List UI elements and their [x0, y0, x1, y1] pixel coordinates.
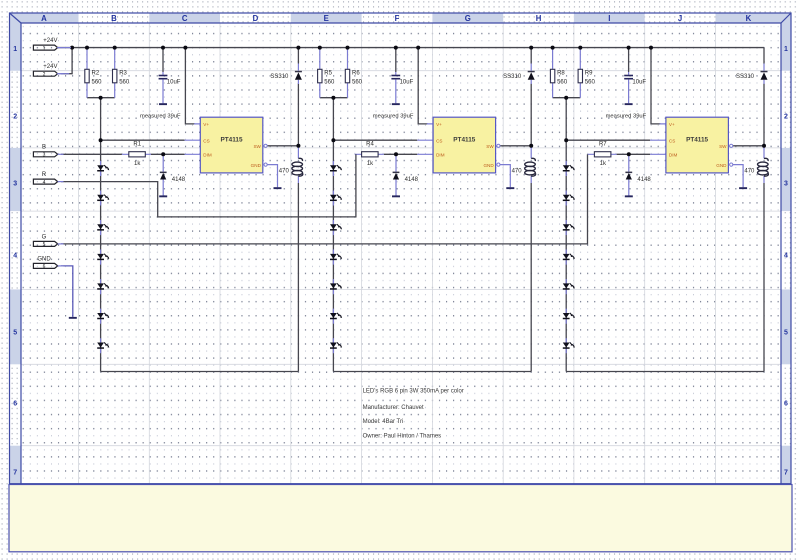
svg-text:6: 6: [13, 401, 17, 408]
svg-text:G: G: [42, 234, 47, 240]
svg-text:2: 2: [13, 114, 17, 121]
svg-text:Manufacturer: Chauvet: Manufacturer: Chauvet: [363, 405, 424, 411]
svg-text:2: 2: [43, 72, 46, 78]
svg-text:3: 3: [784, 181, 788, 188]
junction pin2/bus: [70, 46, 74, 50]
wire GND pin6: [61, 266, 73, 317]
svg-text:Model: 4Bar Tri: Model: 4Bar Tri: [363, 419, 404, 425]
svg-text:+24V: +24V: [43, 38, 57, 44]
notes text block: [363, 388, 464, 439]
svg-text:D: D: [253, 14, 259, 23]
svg-text:5: 5: [784, 330, 788, 337]
channel 1: [85, 46, 303, 372]
svg-text:J: J: [678, 14, 682, 23]
wire R feed to channel 2 DIM: [61, 154, 356, 217]
svg-text:7: 7: [13, 470, 17, 477]
svg-text:5: 5: [13, 330, 17, 337]
svg-text:1: 1: [784, 46, 788, 53]
svg-text:+24V: +24V: [43, 64, 57, 70]
svg-text:R1: R1: [133, 142, 141, 148]
svg-text:1: 1: [43, 46, 46, 52]
svg-text:GND: GND: [37, 256, 51, 262]
frame numbers: [13, 46, 788, 477]
svg-text:4: 4: [784, 253, 788, 260]
svg-text:B: B: [42, 145, 46, 151]
connector pin 3 B: [33, 152, 63, 157]
shaded top cells A C E G I K: [10, 13, 792, 23]
svg-text:7: 7: [784, 470, 788, 477]
connector pin 6 GND: [33, 263, 63, 268]
svg-text:R4: R4: [366, 142, 374, 148]
svg-text:R5: R5: [324, 70, 332, 76]
connector pin 1 +24V: [33, 45, 63, 50]
svg-text:E: E: [324, 14, 329, 23]
faint region gridlines: [21, 23, 781, 484]
svg-text:LED's RGB 6 pin 3W 350mA per c: LED's RGB 6 pin 3W 350mA per color: [363, 388, 464, 394]
svg-text:I: I: [608, 14, 610, 23]
svg-text:R3: R3: [119, 70, 127, 76]
sheet interior: [21, 23, 781, 484]
svg-text:H: H: [536, 14, 542, 23]
channel 2: [318, 46, 536, 372]
svg-text:6: 6: [43, 264, 46, 270]
svg-text:R: R: [42, 172, 47, 178]
V+ bus wire: [57, 47, 764, 49]
svg-text:K: K: [746, 14, 752, 23]
svg-text:C: C: [182, 14, 188, 23]
connector pin 4 R: [33, 179, 63, 184]
svg-text:Owner: Paul Hinton / Thames: Owner: Paul Hinton / Thames: [363, 433, 442, 439]
ground pin6: [69, 317, 77, 319]
svg-text:R8: R8: [557, 70, 565, 76]
svg-text:4: 4: [13, 253, 17, 260]
svg-text:6: 6: [784, 401, 788, 408]
svg-text:1: 1: [13, 46, 17, 53]
channel 3: [550, 46, 768, 372]
svg-text:F: F: [395, 14, 400, 23]
svg-text:2: 2: [784, 114, 788, 121]
frame letters: [41, 14, 751, 23]
svg-text:4: 4: [43, 180, 46, 186]
svg-text:B: B: [111, 14, 117, 23]
wire pin2 riser to bus: [61, 48, 72, 74]
junction SS310 ch1 bus: [296, 46, 300, 50]
svg-text:R6: R6: [352, 70, 360, 76]
junction SS310 ch2 bus: [529, 46, 533, 50]
svg-text:3: 3: [43, 153, 46, 159]
svg-text:G: G: [465, 14, 471, 23]
svg-text:5: 5: [43, 242, 46, 248]
wire B feed to channel 1 DIM: [61, 153, 122, 155]
svg-text:R7: R7: [599, 142, 607, 148]
svg-text:A: A: [41, 14, 47, 23]
title block (empty yellow): [9, 485, 792, 552]
svg-text:3: 3: [13, 181, 17, 188]
svg-text:R2: R2: [92, 70, 100, 76]
wire G feed to channel 3 DIM: [61, 154, 588, 244]
connector pin 5 G: [33, 241, 63, 246]
svg-text:R9: R9: [585, 70, 593, 76]
channel specific resistor names: [92, 70, 608, 147]
connector pin 2 +24V: [33, 71, 63, 76]
